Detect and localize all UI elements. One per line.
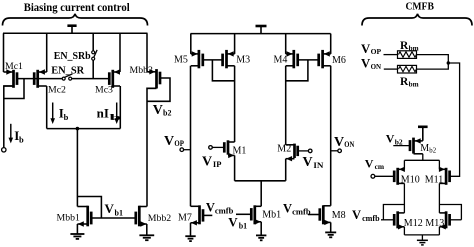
label Mc1 [5, 61, 23, 72]
wire: M4 drain down to M2 drain [285, 66, 287, 145]
wire: M13 source to bottom bus [438, 227, 440, 235]
wire: Von stub [331, 150, 338, 152]
label M10 [401, 174, 420, 185]
wire: CMFB bottom bus [404, 234, 439, 236]
transistor M1 (NMOS input pair) [224, 140, 234, 158]
wire: sense node to M11 gate [448, 63, 459, 176]
svg-text:CMFB: CMFB [405, 1, 434, 12]
wire: M5 drain down to M7 (Vop rail) [190, 66, 192, 207]
port Vip (open circle) [209, 146, 213, 150]
svg-text:nI: nI [97, 106, 109, 121]
svg-text:V: V [283, 201, 292, 215]
power VDD stub (CMFB) [418, 127, 428, 141]
wire: Vcmfb to M12 gate [381, 219, 394, 221]
wire: current-summing bottom bus [47, 128, 121, 130]
wire: M5 source to rail [190, 34, 192, 54]
wire: Mb1 source to ground [260, 222, 262, 235]
label Vin (input) [303, 155, 324, 170]
ground (under Mbb2) [139, 235, 154, 240]
svg-text:M7: M7 [178, 213, 192, 224]
svg-text:V: V [206, 200, 215, 214]
current arrow nIb (in branch) [114, 103, 119, 125]
wire: Mb1 gate stub (Vb1) [236, 213, 251, 215]
svg-text:EN_SRb: EN_SRb [54, 51, 91, 62]
wire: Mc1 source to rail [3, 33, 5, 72]
label Ib (port) [14, 128, 24, 144]
label Von (CMFB input) [361, 57, 382, 71]
wire: gate bus Mc1-Mc2 to EN_SR switch [17, 78, 62, 80]
wire: Mc2 drain down (Ib branch) [46, 86, 48, 129]
label Mb1 [262, 210, 281, 221]
svg-text:M2: M2 [277, 143, 291, 154]
current arrow Ib (in branch) [50, 103, 55, 125]
label Vb2 (at Mb2 gate) [386, 132, 403, 147]
svg-text:V: V [228, 215, 238, 230]
label EN_SR [51, 65, 84, 76]
port Von (open circle) [338, 149, 342, 153]
transistor M10 (PMOS, CMFB pair) [394, 167, 405, 185]
wire: tail down to Mb1 drain [260, 181, 262, 207]
wire: M10 drain down to M12 [403, 183, 405, 213]
svg-text:Mb1: Mb1 [262, 210, 281, 221]
transistor Mc2 (PMOS mirror) [34, 69, 47, 88]
wire: VDD rail (biasing) [3, 32, 148, 34]
wire: Vb2 stub to Mb2 gate [393, 145, 410, 147]
wire: Mc2 source to rail [46, 33, 48, 72]
svg-text:V: V [361, 42, 371, 56]
wire: M2 source down to tail [285, 159, 287, 181]
svg-text:V: V [365, 156, 374, 170]
wire: Mbb3 source to rail [146, 33, 148, 72]
wire: Vcm to M10 gate [375, 175, 395, 177]
label Mc3 [95, 85, 113, 96]
title: CMFB [405, 1, 434, 12]
wire: Vop stub [184, 149, 191, 151]
ground (under Mbb1) [70, 234, 84, 239]
svg-text:V: V [153, 103, 163, 118]
transistor M8 (NMOS output) [320, 205, 331, 225]
svg-text:IN: IN [313, 161, 323, 170]
label Mbb2 [148, 213, 172, 224]
wire: bus to ground stub [421, 235, 423, 240]
power VDD stub (amplifier) [256, 26, 267, 34]
svg-text:b2: b2 [395, 137, 403, 146]
label M2 [277, 143, 291, 154]
title: Biasing current control [24, 2, 130, 14]
ground (under Mb1) [256, 235, 266, 240]
wire: Mc1 gate-drain diode loop [4, 79, 24, 99]
label Rbm (bottom) [400, 76, 419, 89]
wire: M6 source to rail [330, 34, 332, 54]
svg-text:OP: OP [371, 47, 382, 56]
label EN_SRb [54, 51, 91, 62]
svg-text:ON: ON [371, 62, 382, 71]
label Vb2 (bias) [153, 103, 172, 118]
transistor Mbb1 (NMOS, diode-connected) [77, 206, 91, 227]
svg-text:Mc2: Mc2 [48, 85, 66, 96]
svg-text:b: b [64, 112, 69, 122]
wire: M7 gate stub (Vcmfb) [203, 214, 212, 216]
wire: EN_SR switch to Mc3 gate [72, 78, 110, 80]
label Mbb3 [130, 65, 154, 76]
svg-text:V: V [105, 201, 115, 216]
wire: Rbm1 to sense node [417, 55, 449, 63]
wire: Mc1 drain down to Ib port [4, 86, 14, 148]
label Vcmfb (at M8 gate) [283, 201, 311, 216]
transistor M4 (PMOS, diode-connected) [286, 50, 298, 68]
current arrow Ib (left port) [9, 124, 14, 144]
svg-text:cmfb: cmfb [292, 207, 311, 216]
wire: gate bus M4-M6 [298, 59, 319, 61]
transistor M11 (PMOS, CMFB pair) [439, 167, 450, 185]
wire: Vip to M1 gate [212, 146, 224, 148]
label M1 [233, 145, 247, 156]
label nIb (branch) [97, 106, 122, 122]
svg-text:b1: b1 [239, 222, 247, 231]
label Mb2 [420, 143, 436, 155]
transistor Mb2 (PMOS tail, CMFB) [410, 138, 423, 154]
port Vop (open circle) [180, 148, 184, 152]
svg-text:Mbb2: Mbb2 [148, 213, 172, 224]
wire: Mbb1 gate-drain diode loop [77, 197, 101, 219]
wire: Von to Rbm2 [384, 68, 398, 70]
wire: VDD rail (amplifier) [191, 33, 331, 35]
wire: M8 source to ground [330, 222, 332, 232]
transistor M12 (NMOS, diode-connected) [394, 211, 404, 229]
wire: bus to M11 source [438, 160, 440, 169]
transistor Mc3 (PMOS mirror n:1) [109, 69, 120, 88]
label Vip (input) [202, 154, 222, 169]
svg-text:M8: M8 [332, 210, 346, 221]
svg-text:b: b [109, 112, 122, 122]
ground (under M8) [325, 232, 336, 237]
label Vop (CMFB input) [361, 42, 381, 56]
svg-text:bm: bm [409, 80, 419, 88]
label Vcmfb (CMFB output) [352, 208, 380, 223]
wire: Mb2 drain to pair bus [422, 154, 424, 161]
svg-text:M12: M12 [404, 218, 423, 229]
svg-text:M4: M4 [274, 55, 288, 66]
wire: M4 gate-drain diode loop [286, 60, 308, 81]
label M3 [236, 55, 250, 66]
label Von (output, right) [334, 135, 354, 150]
switch EN_SR (horizontal, open) [62, 74, 72, 80]
label M8 [332, 210, 346, 221]
label Ib (branch) [59, 106, 69, 122]
svg-text:M6: M6 [332, 55, 346, 66]
transistor M7 (NMOS output) [191, 205, 204, 225]
wire: summing node down to Mbb1 drain [76, 129, 78, 207]
label M13 [425, 218, 444, 229]
label Vop (output, left) [164, 134, 184, 149]
wire: Mbb2 source to ground [146, 224, 148, 235]
svg-text:M10: M10 [401, 174, 420, 185]
label Vcmfb (at M7 gate) [206, 200, 234, 215]
wire: M11 drain down to M13 [438, 183, 440, 213]
wire: M2 gate to Vin [298, 150, 309, 152]
svg-text:b2: b2 [429, 147, 436, 154]
wire: Vop to Rbm1 [384, 54, 398, 56]
transistor M2 (NMOS input pair) [286, 144, 298, 162]
port Vcm (open circle) [371, 174, 375, 178]
wire: Mc3 drain down (nIb branch) [119, 86, 121, 129]
wire: EN_SRb switch to gate bus [92, 60, 94, 78]
ground (under M7) [185, 236, 195, 241]
transistor M5 (PMOS load) [191, 50, 203, 68]
wire: bus to M10 source [403, 160, 405, 169]
wire: tail bus [235, 180, 286, 182]
wire: Mbb1 source to ground [76, 224, 78, 234]
svg-text:Mc1: Mc1 [5, 61, 23, 72]
ground (CMFB) [417, 240, 428, 245]
svg-text:Biasing current control: Biasing current control [24, 2, 130, 14]
svg-text:V: V [386, 132, 395, 146]
svg-text:OP: OP [174, 139, 184, 148]
label Mc2 [48, 85, 66, 96]
transistor M13 (NMOS, diode-connected) [439, 211, 449, 229]
transistor Mbb3 (PMOS, diode-connected) [147, 69, 160, 88]
wire: M3 drain down to M1 drain [234, 66, 236, 142]
wire: M8 gate stub (Vcmfb) [308, 214, 320, 216]
wire: gate bus M5-M3 [203, 59, 223, 61]
wire: M10/M11 source bus [404, 159, 439, 161]
wire: M6 drain down to M8 (Von rail) [330, 66, 332, 206]
transistor Mb1 (NMOS tail source) [251, 205, 261, 224]
transistor Mbb2 (NMOS mirror) [136, 206, 147, 227]
svg-text:ON: ON [344, 140, 354, 149]
svg-text:V: V [303, 155, 313, 170]
label Vb1 (at Mb1 gate) [228, 215, 247, 231]
port Ib (open circle) [2, 148, 6, 152]
transistor M6 (PMOS load) [319, 50, 331, 68]
node: common-mode sense junction [447, 61, 450, 64]
svg-text:cmfb: cmfb [362, 214, 380, 223]
svg-text:M13: M13 [425, 218, 444, 229]
svg-text:b: b [19, 134, 24, 144]
label M7 [178, 213, 192, 224]
svg-text:b2: b2 [163, 109, 171, 118]
node: summing junction [76, 127, 80, 131]
wire: Mc3 source to rail [119, 33, 121, 72]
wire: M1 source down to tail [234, 155, 236, 180]
wire: M3 gate-drain diode loop [212, 60, 234, 81]
svg-text:M: M [420, 143, 429, 154]
wire: M13 gate stub [450, 219, 462, 221]
wire: M12 gate-drain diode loop [383, 205, 404, 220]
label Vb1 (bias, left) [105, 201, 123, 217]
svg-text:V: V [361, 57, 371, 71]
label Mbb1 [57, 213, 81, 224]
wire: EN_SRb drop from rail [92, 33, 94, 50]
label Vcm [365, 156, 385, 171]
label M5 [174, 55, 188, 66]
svg-text:Mbb3: Mbb3 [130, 65, 154, 76]
wire: Mbb3 gate-drain diode loop [147, 78, 170, 101]
svg-text:EN_SR: EN_SR [51, 65, 84, 76]
svg-text:b1: b1 [115, 208, 123, 217]
svg-text:V: V [334, 135, 344, 150]
label M11 [425, 174, 444, 185]
brace: biasing current control block [3, 14, 148, 26]
power VDD stub (biasing) [67, 26, 76, 34]
wire: M13 gate-drain diode loop [439, 205, 461, 220]
wire: M7 source to ground [190, 223, 192, 236]
svg-text:Mbb1: Mbb1 [57, 213, 81, 224]
svg-text:Mc3: Mc3 [95, 85, 113, 96]
wire: Rbm2 to sense node [417, 63, 449, 69]
transistor Mc1 (PMOS, diode-connected) [4, 69, 18, 88]
label Rbm (top) [400, 40, 419, 53]
wire: M12 source to bottom bus [403, 227, 405, 235]
svg-text:cm: cm [375, 162, 385, 171]
svg-text:V: V [202, 154, 212, 169]
resistor Rbm1 (boxed zigzag) [398, 51, 417, 59]
svg-text:M11: M11 [425, 174, 444, 185]
wire: M3 source to rail [234, 34, 236, 54]
svg-text:V: V [164, 134, 174, 149]
wire: Vb1 gate bus Mbb1-Mbb2 [91, 217, 136, 219]
label M4 [274, 55, 288, 66]
transistor M3 (PMOS, diode-connected) [223, 50, 235, 68]
brace: CMFB block [362, 14, 472, 26]
svg-text:IP: IP [213, 160, 222, 169]
svg-text:M3: M3 [236, 55, 250, 66]
label M12 [404, 218, 423, 229]
switch EN_SRb (vertical, open) [92, 50, 97, 60]
label M6 [332, 55, 346, 66]
port Vin (open circle) [308, 149, 312, 153]
svg-text:M5: M5 [174, 55, 188, 66]
wire: Mbb3 drain down to Mbb2 [147, 88, 157, 206]
resistor Rbm2 (boxed zigzag) [398, 65, 417, 73]
svg-text:M1: M1 [233, 145, 247, 156]
svg-text:V: V [352, 208, 361, 222]
wire: M4 source to rail [285, 34, 287, 54]
